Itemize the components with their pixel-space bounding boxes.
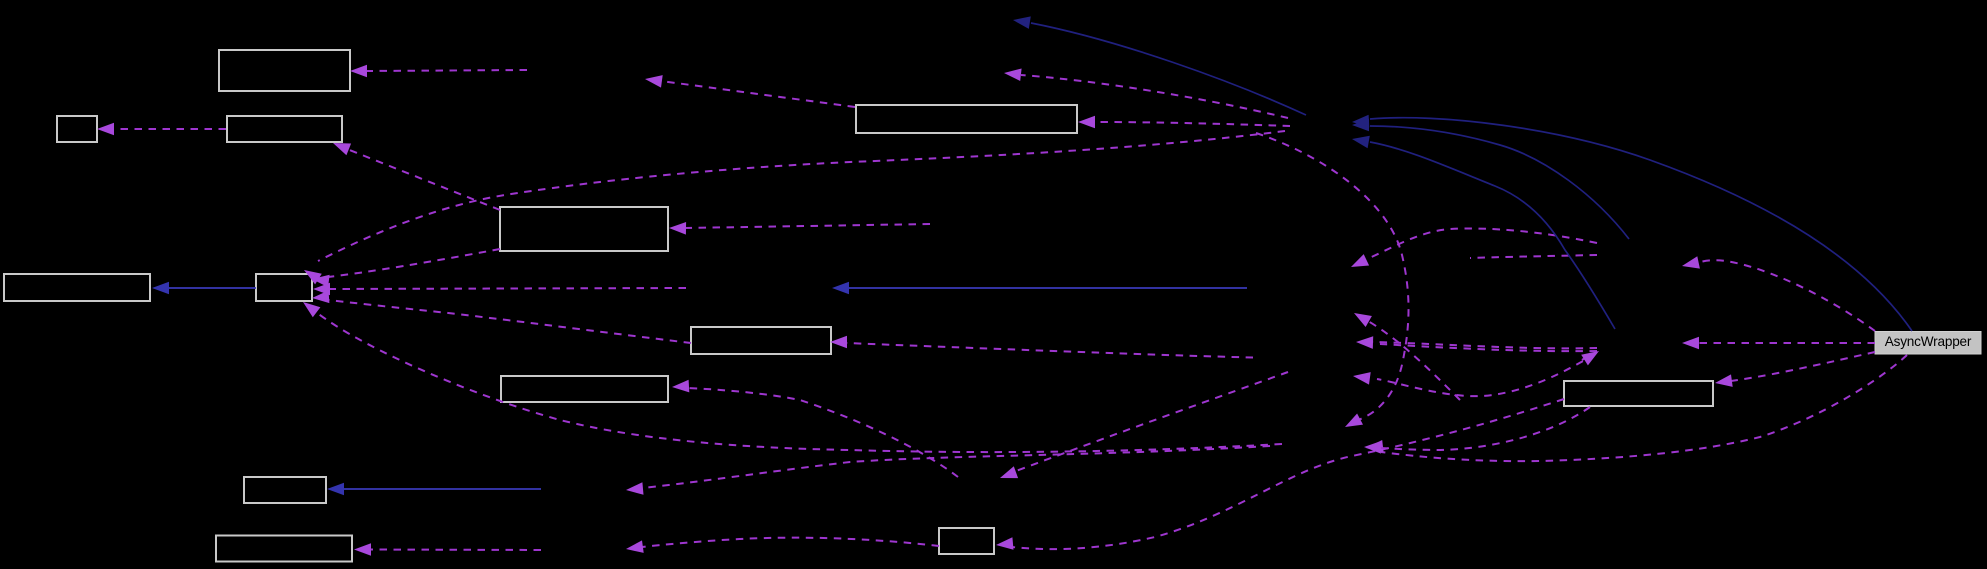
node B	[57, 116, 97, 142]
node G	[216, 536, 352, 562]
wire I to E	[312, 249, 500, 287]
wire N8 stub	[1470, 255, 1597, 258]
wire N6 to N11	[626, 446, 1270, 495]
wire N7 to J	[830, 336, 1597, 358]
wire N8 to V1	[1351, 229, 1597, 267]
blue E to D	[152, 282, 256, 295]
wire N12 to G	[354, 543, 541, 556]
node M	[1564, 381, 1713, 406]
blue N8 to N1	[1352, 119, 1629, 239]
node D	[4, 274, 150, 301]
wire M to L	[996, 399, 1564, 550]
wire W to N8	[1682, 256, 1875, 331]
wire N1 to E top	[304, 131, 1285, 284]
wire W to N7	[1682, 337, 1875, 350]
wire M to V4	[1364, 407, 1590, 454]
wire I to C	[333, 143, 500, 210]
blue N7 to N1	[1352, 136, 1615, 329]
blue N11 to F	[327, 483, 541, 496]
wire N1 to V4	[1256, 133, 1409, 427]
wire V3 to N9	[1000, 372, 1288, 478]
node F	[244, 477, 326, 503]
wire sag to V3	[1353, 354, 1595, 396]
node H	[856, 105, 1077, 133]
wire N9 to K	[672, 380, 958, 477]
node I	[500, 207, 668, 251]
wire W to V4 swoop	[1366, 355, 1907, 461]
node K	[501, 376, 668, 402]
wire W to M	[1715, 352, 1875, 387]
wire J to E	[312, 291, 691, 344]
node AsyncWrapper	[1875, 332, 1981, 355]
wire N2 to E	[313, 283, 686, 296]
node A	[219, 50, 350, 91]
wire N1 to H	[1078, 116, 1290, 129]
node E	[256, 274, 312, 301]
wire N15 to I	[669, 222, 930, 235]
node J	[691, 327, 831, 354]
wire to V1b	[1354, 313, 1460, 400]
wire N7 to V2	[1356, 336, 1597, 349]
node C	[227, 116, 342, 142]
blue N1 to N14 top	[1013, 16, 1306, 115]
wire H to N3	[645, 75, 855, 107]
node L	[939, 528, 994, 554]
wire arrow into N7bl	[1581, 351, 1599, 365]
svg-text:AsyncWrapper: AsyncWrapper	[1885, 334, 1972, 349]
wire C to B	[97, 123, 226, 136]
blue W to N1	[1352, 115, 1912, 331]
wire N1 to N14	[1004, 69, 1288, 119]
blue to N2	[832, 282, 1247, 295]
wire L to N12	[626, 538, 939, 553]
wire N6 to E bottom	[303, 302, 1282, 452]
wire N3 to A	[350, 65, 527, 78]
